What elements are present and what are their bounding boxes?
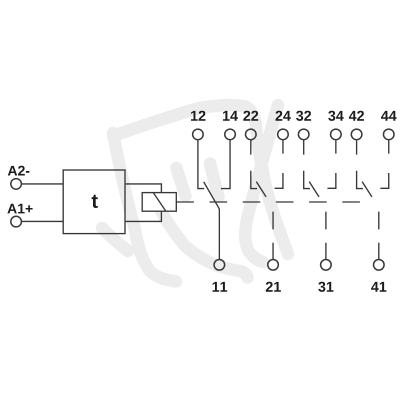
label 34 (328, 111, 344, 121)
contact 3: moving blade (309, 182, 319, 197)
label 24 (276, 111, 291, 121)
label 21 (266, 282, 281, 292)
contact 4: NC fixed contact 42 (dashed) (357, 140, 363, 188)
contact 1: NC fixed contact 12 (198, 140, 204, 188)
label A2- (8, 166, 30, 176)
contact 2: NC fixed contact 22 (dashed) (251, 140, 257, 188)
label 14 (223, 111, 238, 121)
label 41 (371, 282, 386, 292)
label 32 (296, 111, 311, 121)
contact 3: wire to 31 (dashed) (325, 212, 327, 260)
label A1+ (7, 204, 32, 214)
label 42 (349, 111, 364, 121)
contact 1: moving blade and wire to 11 (204, 182, 220, 259)
wire A1 to box (21, 220, 63, 222)
label 22 (243, 111, 258, 121)
contact 4: NO fixed contact 44 (dashed) (380, 140, 388, 188)
contact 1: NO fixed contact 14 (221, 140, 230, 188)
label 12 (191, 111, 206, 121)
terminal A1 circle (11, 216, 22, 227)
contact 2: moving blade (256, 182, 266, 197)
terminal 42 circle (351, 129, 362, 140)
terminal 41 circle (374, 260, 385, 271)
terminal 34 circle (331, 129, 342, 140)
coil diagonal (153, 193, 166, 212)
contact 2: NO fixed contact 24 (dashed) (275, 140, 283, 188)
wire A2 to box (21, 183, 63, 185)
terminal 14 circle (225, 129, 236, 140)
wire box to coil loop top (125, 184, 161, 193)
contact 4: moving blade (362, 182, 372, 197)
terminal 11 circle (214, 260, 225, 271)
label 31 (318, 282, 333, 292)
label t (92, 195, 98, 208)
watermark logo (102, 105, 288, 282)
terminal 21 circle (268, 260, 279, 271)
terminal 22 circle (246, 129, 257, 140)
label 11 (213, 282, 228, 292)
terminal A2 circle (11, 179, 22, 190)
terminal 31 circle (321, 260, 332, 271)
timer function block U1 (63, 170, 125, 234)
contact 2: wire to 21 (dashed) (272, 212, 274, 260)
terminal 24 circle (278, 129, 289, 140)
terminal 44 circle (383, 129, 394, 140)
mechanical linkage (dashed) (176, 201, 361, 203)
wire box to coil loop bottom (125, 211, 161, 221)
relay coil K1 (142, 193, 176, 212)
contact 4: wire to 41 (dashed) (378, 212, 380, 260)
terminal 12 circle (193, 129, 204, 140)
label 44 (381, 111, 397, 121)
contact 3: NC fixed contact 32 (dashed) (304, 140, 310, 188)
contact 3: NO fixed contact 34 (dashed) (327, 140, 335, 188)
terminal 32 circle (298, 129, 309, 140)
